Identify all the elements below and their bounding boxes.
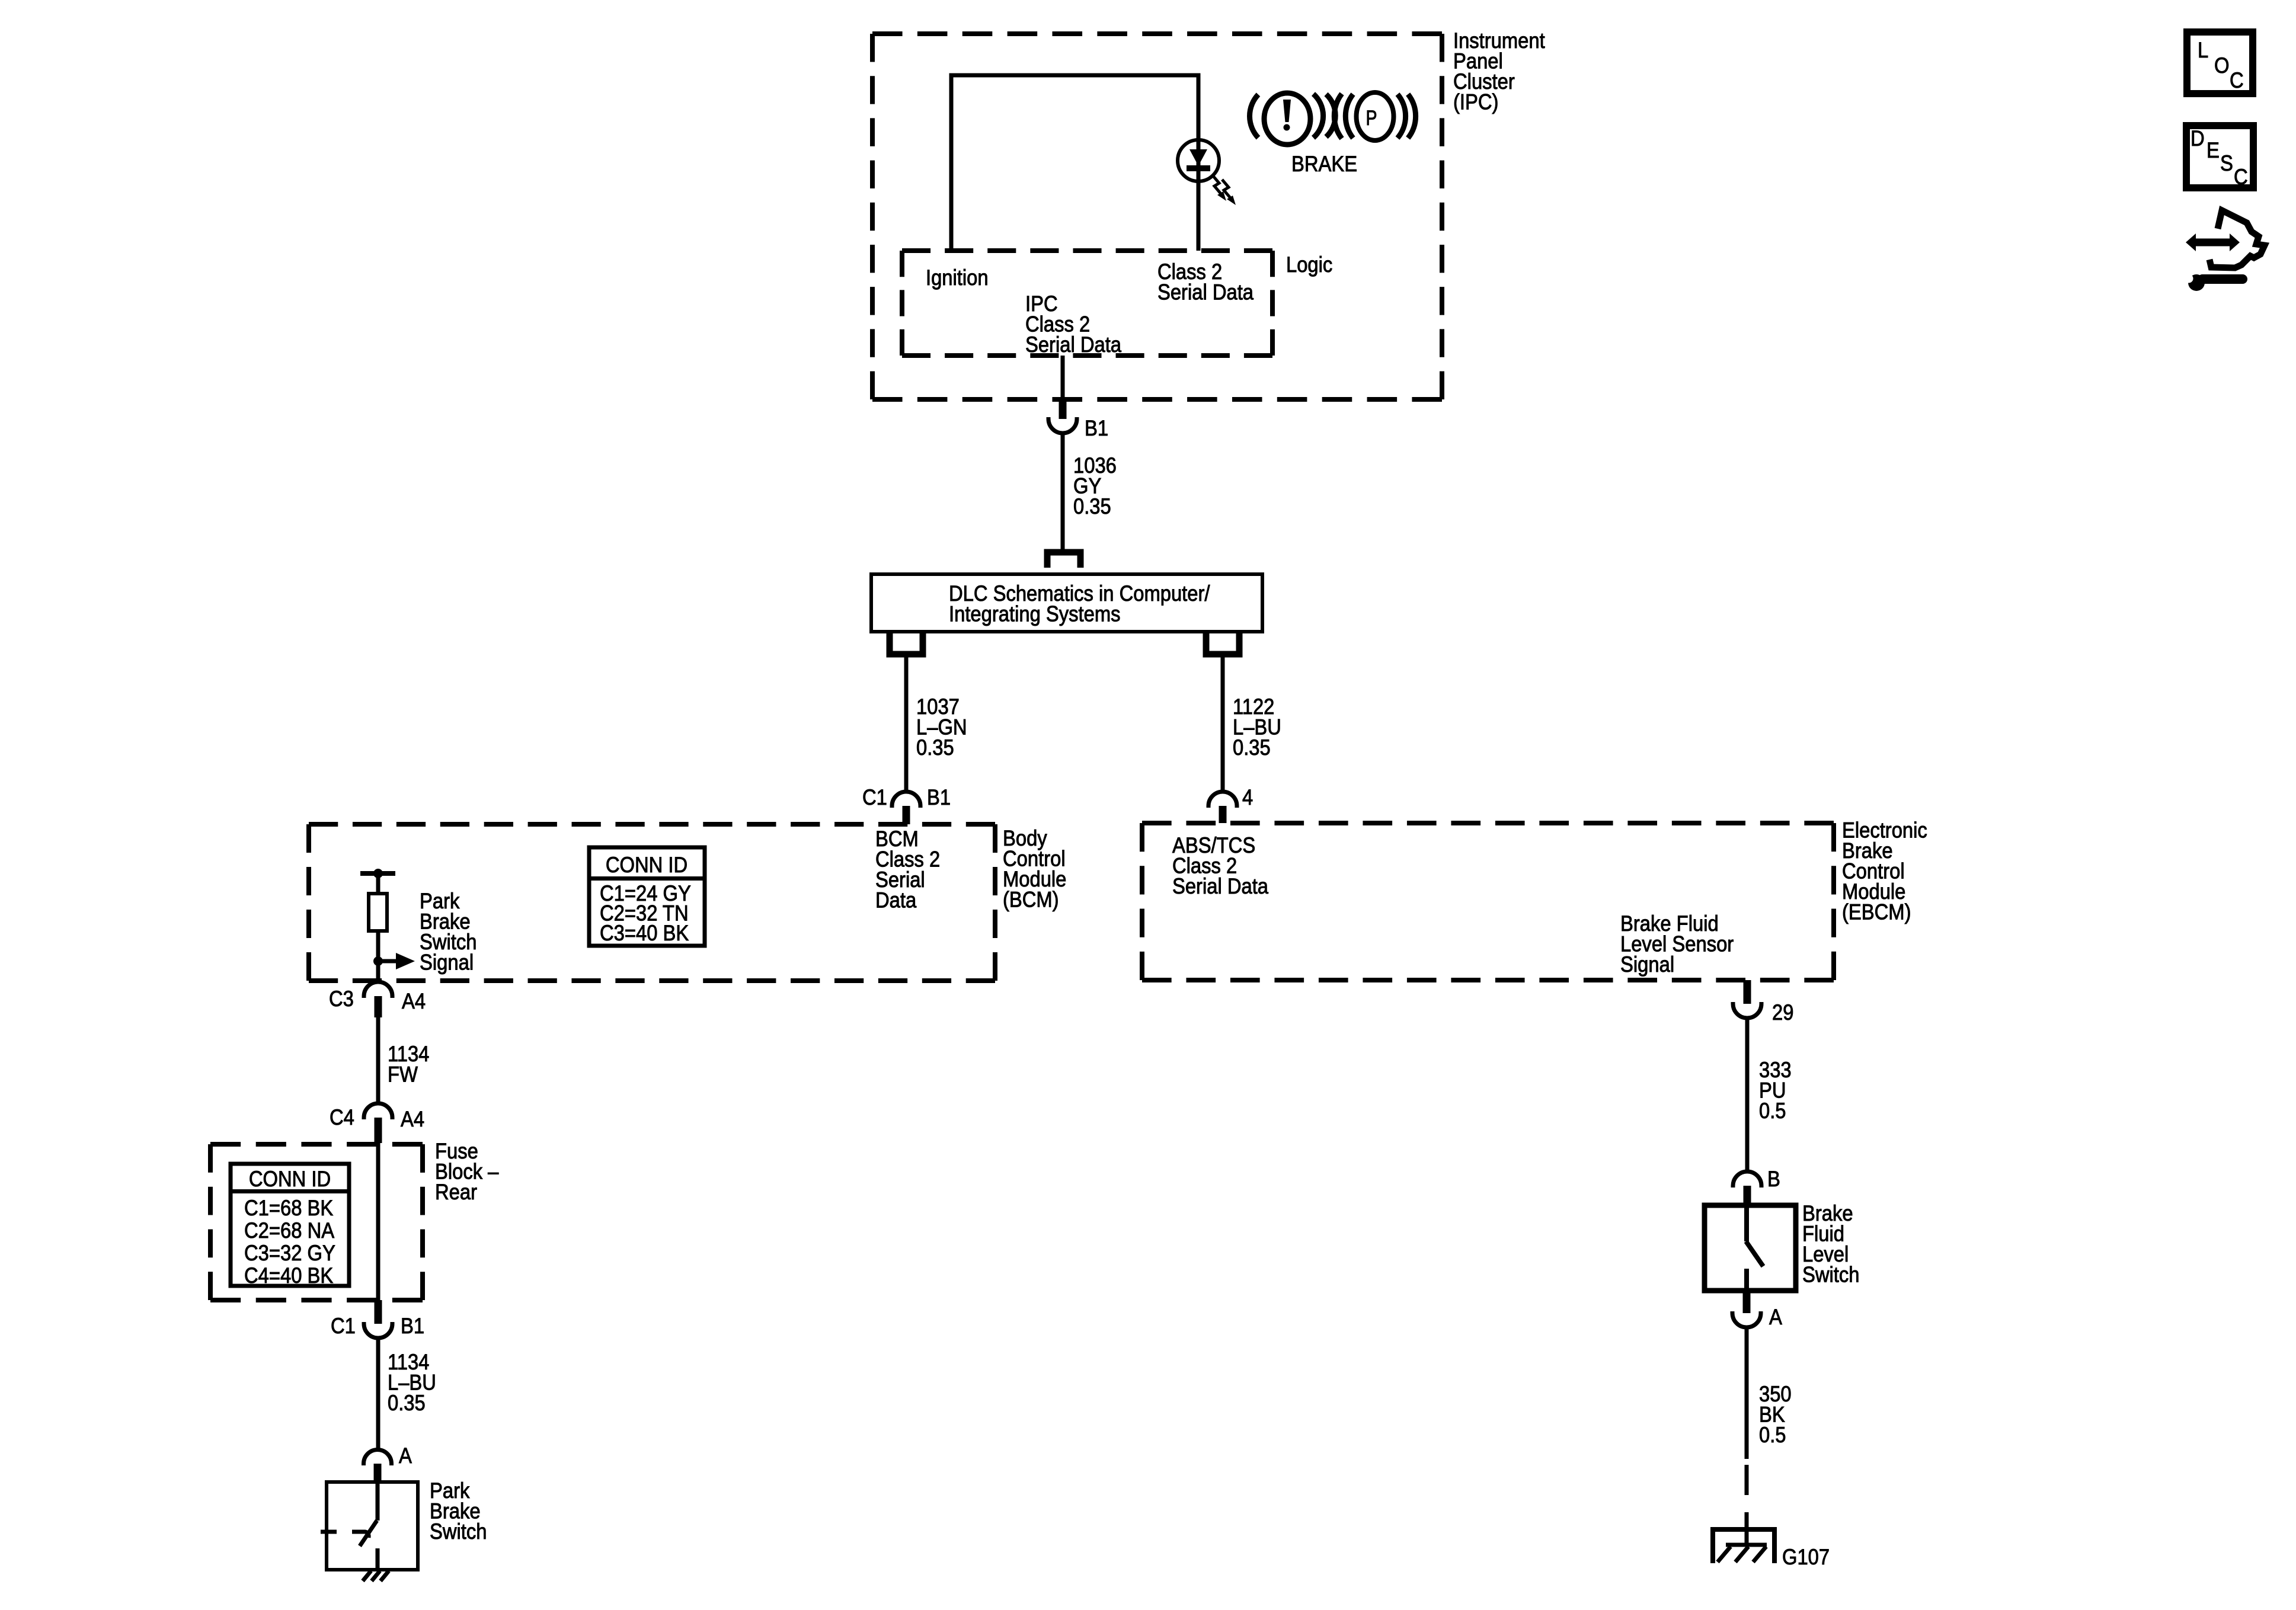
- module box: Fuse Block - Rear: [210, 1144, 423, 1300]
- wire: [376, 931, 380, 981]
- wire: IPC logic to connector B1: [1061, 356, 1065, 401]
- svg-text:S: S: [2220, 151, 2233, 175]
- LED indicator lamp (BRAKE telltale): [1178, 140, 1219, 181]
- svg-text:Logic: Logic: [1286, 252, 1332, 277]
- wire: dashed segment to ground: [1745, 1465, 1749, 1495]
- connector stub below DLC box (left): [890, 632, 923, 654]
- svg-text:L: L: [2198, 38, 2208, 62]
- signal arrow: Park Brake Switch Signal: [378, 959, 397, 964]
- module box: Instrument Panel Cluster (IPC): [872, 34, 1442, 399]
- svg-text:CONN ID: CONN ID: [606, 853, 687, 877]
- CONN ID table (Fuse Block): [231, 1164, 349, 1288]
- svg-text:B1: B1: [401, 1314, 424, 1338]
- wire 1037 L-GN 0.35: [904, 654, 909, 792]
- svg-text:C: C: [2234, 165, 2248, 189]
- switch element: brake fluid level switch: [1746, 1208, 1763, 1288]
- connector B1 (IPC harness connector): [1048, 401, 1077, 433]
- connector stub into DLC note box: [1047, 552, 1080, 568]
- chassis ground (park brake switch case): [363, 1571, 389, 1581]
- connector stub below DLC box (right): [1206, 632, 1239, 654]
- connector A (park brake switch): [364, 1449, 392, 1483]
- resistor: park brake switch signal pull-up: [369, 894, 387, 931]
- connector A (brake fluid level switch): [1732, 1291, 1761, 1327]
- icon box: DESC: [2186, 126, 2253, 189]
- svg-text:C1=24 GYC2=32 TNC3=40 BK: C1=24 GYC2=32 TNC3=40 BK: [600, 881, 691, 945]
- internal pull-up tick and junction: [360, 871, 395, 876]
- svg-text:BRAKE: BRAKE: [1291, 152, 1357, 176]
- module box: Electronic Brake Control Module (EBCM): [1142, 823, 1834, 980]
- svg-text:CONN ID: CONN ID: [249, 1167, 331, 1191]
- svg-text:P: P: [1366, 107, 1377, 130]
- connector C1/B1 (BCM connector): [892, 792, 920, 824]
- LED light-emission arrows: [1213, 175, 1236, 205]
- wire 333 PU 0.5: [1745, 1018, 1750, 1172]
- svg-text:E: E: [2207, 138, 2220, 162]
- wire through fuse block: [376, 1143, 380, 1300]
- svg-text:4: 4: [1242, 785, 1253, 809]
- park brake indicator symbol ((P)): [1334, 92, 1415, 140]
- wire 1134 FW: [376, 1017, 380, 1103]
- icon box: LOC: [2187, 32, 2253, 94]
- svg-text:D: D: [2191, 126, 2205, 151]
- svg-text:C1=68 BKC2=68 NAC3=32 GYC4=40: C1=68 BKC2=68 NAC3=32 GYC4=40 BK: [244, 1196, 335, 1288]
- svg-text:G107: G107: [1782, 1545, 1830, 1569]
- svg-text:A: A: [1769, 1305, 1782, 1329]
- wire 1122 L-BU 0.35: [1221, 654, 1225, 792]
- module box: Body Control Module (BCM): [309, 824, 995, 981]
- node: park brake switch signal junction: [373, 956, 383, 966]
- wire: IPC lamp loop (Ignition to Class 2 Serial Data): [951, 75, 1198, 251]
- ground G107: [1710, 1529, 1777, 1563]
- connector B (brake fluid level switch): [1733, 1172, 1761, 1206]
- wire 1134 L-BU 0.35: [376, 1338, 380, 1450]
- svg-text:Ignition: Ignition: [926, 265, 989, 290]
- switch box: Park Brake Switch: [327, 1482, 418, 1570]
- svg-text:C: C: [2230, 68, 2244, 92]
- switch element: park brake switch: [321, 1482, 378, 1570]
- brake warning indicator symbol ((!)): [1250, 93, 1336, 145]
- wire 1036 GY 0.35: [1061, 433, 1065, 549]
- note box: DLC Schematics in Computer/Integrating Systems: [871, 574, 1262, 632]
- CONN ID table (BCM): [589, 847, 705, 946]
- logic box: IPC Logic: [902, 251, 1272, 356]
- svg-text:O: O: [2214, 53, 2230, 78]
- svg-text:C1: C1: [331, 1314, 356, 1338]
- connector C3/A4 (BCM to harness): [364, 982, 392, 1017]
- connector pin 4 (EBCM connector): [1208, 792, 1237, 823]
- svg-text:A: A: [399, 1443, 412, 1468]
- svg-text:B: B: [1767, 1167, 1780, 1191]
- svg-text:C4: C4: [330, 1105, 354, 1129]
- connector C1/B1 (fuse block to harness): [364, 1300, 392, 1338]
- svg-text:29: 29: [1772, 1000, 1793, 1025]
- svg-text:A4: A4: [402, 989, 426, 1013]
- connector C4/A4 (fuse block): [364, 1103, 392, 1143]
- svg-text:C3: C3: [329, 987, 354, 1011]
- switch box: Brake Fluid Level Switch: [1705, 1205, 1796, 1291]
- wire 350 BK 0.5: [1745, 1327, 1749, 1459]
- svg-text:B1: B1: [1085, 416, 1108, 440]
- icon: service information (arrows, part outline, wrench): [2185, 210, 2265, 291]
- connector pin 29 (EBCM): [1733, 980, 1761, 1018]
- svg-text:A4: A4: [401, 1107, 424, 1131]
- svg-text:B1: B1: [927, 785, 951, 809]
- wire: [376, 873, 380, 894]
- svg-text:C1: C1: [862, 785, 887, 809]
